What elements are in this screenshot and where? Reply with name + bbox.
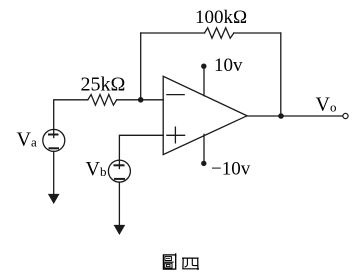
op-amp minus input symbol [167,94,184,96]
node junction output [278,113,284,119]
output terminal open circle [343,113,348,118]
wire feedback left vertical [140,33,142,100]
wire positive supply +10v [203,67,205,96]
svg-text:10v: 10v [214,55,243,76]
wire 25k to inverting input [117,99,164,101]
node -10v terminal dot [201,161,206,166]
wire feedback top-right horizontal [234,32,281,34]
source Va circle [43,129,65,151]
svg-text:100kΩ: 100kΩ [195,7,247,28]
wire negative supply -10v [203,134,205,162]
caption glyph Si (four) [183,258,199,269]
svg-text:Vb: Vb [86,158,107,180]
svg-text:Va: Va [17,128,37,150]
svg-text:Vo: Vo [316,93,337,115]
wire Va branch up and right to 25k [54,100,88,130]
caption figure four (drawn CJK glyphs) [163,254,198,270]
resistor 100k feedback [205,28,234,38]
ground arrow for Va [48,194,60,204]
wire feedback right vertical [280,33,282,116]
wire Va to ground [53,151,55,194]
source Vb circle [108,160,130,182]
svg-text:−10v: −10v [211,159,251,180]
wire output [247,115,343,117]
source Vb polarity marks [115,164,124,166]
resistor 25k input [88,95,117,106]
wire feedback top-left horizontal [141,32,205,34]
svg-text:25kΩ: 25kΩ [81,73,126,95]
node junction inverting input [138,97,144,103]
op-amp U1 triangle [163,76,247,154]
op-amp plus input symbol [167,127,185,143]
wire Vb branch up and right to non-inverting input [119,135,163,160]
source Va polarity marks [49,134,58,136]
caption glyph Tu (figure) [163,254,175,269]
node +10v terminal dot [201,63,206,68]
wire Vb to ground [118,182,120,226]
ground arrow for Vb [114,225,126,235]
